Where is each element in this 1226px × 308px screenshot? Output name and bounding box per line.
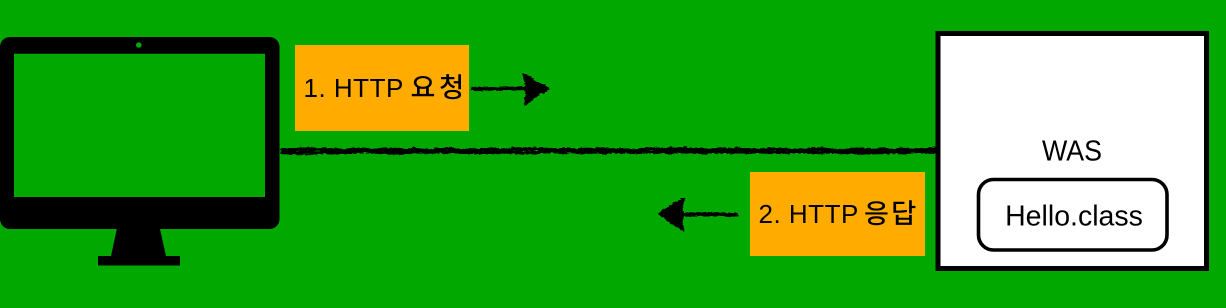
svg-text:WAS: WAS: [1042, 136, 1102, 168]
svg-text:1. HTTP: 1. HTTP: [304, 73, 404, 103]
hangul 요: [412, 76, 434, 96]
hangul 답: [893, 200, 915, 225]
hangul 청: [440, 74, 461, 99]
svg-text:2. HTTP: 2. HTTP: [759, 199, 859, 229]
label box 2: HTTP response: [750, 172, 925, 256]
monitor stand base: [98, 256, 180, 266]
wire: hand-drawn horizontal connection line: [281, 148, 936, 154]
monitor (client PC): [0, 37, 280, 229]
arrow 1 (request, pointing right): [472, 73, 548, 103]
svg-text:Hello.class: Hello.class: [1005, 201, 1143, 233]
monitor stand neck: [111, 229, 166, 256]
label box 1: HTTP request: [295, 45, 469, 131]
Hello.class rounded box: [979, 180, 1168, 251]
WAS server box: [938, 34, 1207, 269]
arrow 2 (response, pointing left): [658, 198, 736, 230]
hangul 응: [865, 201, 887, 225]
